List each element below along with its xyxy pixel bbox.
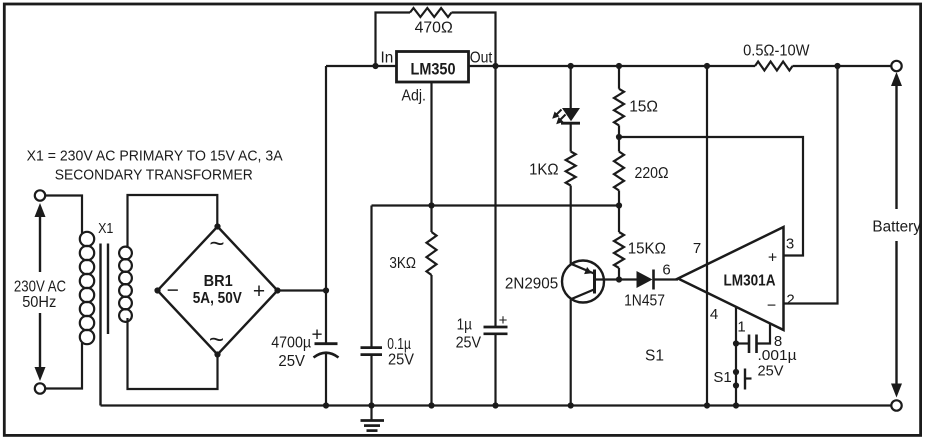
wire Adj node horizontal — [372, 204, 620, 206]
svg-text:25V: 25V — [456, 335, 482, 352]
svg-text:4700µ: 4700µ — [271, 335, 311, 352]
LED emission arrows — [556, 110, 562, 116]
wire Out riser to 1u — [494, 66, 496, 327]
svg-text:S1: S1 — [645, 348, 664, 365]
wire 4700u to ground rail — [325, 354, 327, 406]
svg-text:LM350: LM350 — [411, 61, 456, 79]
wire 15R to 220R — [618, 125, 620, 151]
node 3K ground — [428, 402, 434, 408]
wire base to diode — [596, 278, 637, 280]
svg-text:0.1µ: 0.1µ — [387, 336, 411, 353]
resistor 15K — [614, 232, 624, 268]
resistor 15R — [614, 89, 624, 126]
svg-text:6: 6 — [662, 262, 670, 279]
node 1u ground — [492, 402, 498, 408]
node 4700u ground — [323, 402, 329, 408]
resistor 1K — [566, 152, 576, 186]
svg-text:~: ~ — [209, 228, 224, 258]
svg-text:230V AC: 230V AC — [14, 279, 66, 296]
resistor 3K wires — [430, 206, 432, 233]
svg-text:Adj.: Adj. — [402, 88, 427, 105]
node divider tap (to op-amp +) — [616, 134, 622, 140]
bridge rectifier BR1 diamond — [158, 227, 278, 355]
wire pin1 node down to switch — [735, 344, 737, 406]
capacitor 4700u top plate — [315, 342, 338, 345]
op-amp U2 LM301A — [678, 227, 784, 330]
svg-text:5A, 50V: 5A, 50V — [193, 290, 243, 307]
capacitor comp .001u plates — [748, 335, 751, 354]
AC source arrow down — [39, 313, 41, 368]
node pin7 branch — [704, 63, 710, 69]
wire secondary bottom to bridge AC bottom — [128, 318, 218, 389]
svg-text:+: + — [768, 250, 777, 267]
capacitor 0.1u top plate — [361, 346, 383, 349]
wire diode to op-amp pin 6 — [654, 278, 679, 280]
diode D2 1N457 — [637, 271, 653, 288]
wire pin2 to battery rail — [784, 66, 838, 304]
svg-text:X1 = 230V AC PRIMARY TO 15V AC: X1 = 230V AC PRIMARY TO 15V AC, 3A — [27, 148, 283, 165]
svg-text:SECONDARY TRANSFORMER: SECONDARY TRANSFORMER — [55, 166, 253, 183]
node 15R branch — [616, 63, 622, 69]
capacitor 1u bottom plate — [484, 332, 508, 335]
switch S1 — [733, 369, 739, 375]
svg-text:In: In — [381, 50, 394, 67]
resistor 470R — [410, 8, 452, 17]
transformer X1 secondary winding — [119, 247, 132, 260]
transformer core line left (to ground rail) — [99, 244, 101, 406]
svg-text:4: 4 — [710, 306, 718, 323]
svg-text:470Ω: 470Ω — [415, 20, 453, 37]
svg-text:−: − — [167, 279, 179, 302]
transformer core line right — [107, 244, 109, 335]
wire In — [326, 65, 397, 67]
svg-text:LM301A: LM301A — [724, 273, 776, 290]
transformer X1 primary winding — [80, 232, 94, 246]
capacitor comp .001u wires — [736, 342, 749, 344]
wire ground rail — [101, 404, 892, 406]
wire 220R to Adj node — [618, 191, 620, 233]
svg-text:3: 3 — [786, 236, 794, 253]
svg-text:1: 1 — [737, 319, 745, 336]
svg-text:2: 2 — [786, 292, 794, 309]
node bridge AC top — [214, 223, 220, 229]
svg-text:25V: 25V — [758, 363, 784, 380]
svg-text:BR1: BR1 — [204, 273, 233, 290]
svg-text:2N2905: 2N2905 — [505, 276, 558, 293]
svg-text:X1: X1 — [98, 220, 113, 237]
wire Adj to 0.1u riser — [370, 206, 372, 348]
battery arrow down — [895, 241, 897, 384]
wire 1u to ground rail — [494, 334, 496, 406]
resistor 470R loop wires — [376, 13, 411, 67]
svg-text:Battery: Battery — [872, 219, 921, 236]
svg-text:1N457: 1N457 — [624, 293, 665, 310]
node In / 470R junction — [372, 63, 378, 69]
node base / 15K junction — [616, 276, 622, 282]
svg-text:~: ~ — [209, 324, 224, 354]
svg-text:15KΩ: 15KΩ — [628, 241, 666, 258]
svg-text:−: − — [767, 298, 776, 315]
node bridge AC bottom — [214, 351, 220, 357]
node bridge plus / rail junction — [323, 287, 329, 293]
AC source arrow up — [39, 216, 41, 272]
node LED branch — [568, 63, 574, 69]
svg-text:25V: 25V — [388, 352, 415, 369]
node switch ground — [733, 402, 739, 408]
node bridge minus — [154, 287, 160, 293]
wire divider tap to pin3 — [619, 137, 803, 256]
wire secondary top to bridge AC top — [128, 195, 218, 248]
wire input rail (LM350 In riser) — [325, 66, 327, 344]
node pin4 ground — [704, 402, 710, 408]
svg-text:50Hz: 50Hz — [22, 294, 56, 311]
capacitor 0.1u bottom plate — [361, 353, 383, 356]
wire rail to LED — [570, 66, 572, 109]
svg-text:0.5Ω-10W: 0.5Ω-10W — [743, 43, 810, 60]
node pin2 branch — [834, 63, 840, 69]
node bridge plus — [274, 287, 280, 293]
node Adj junction — [428, 202, 434, 208]
wire LED to 1K — [570, 123, 572, 151]
pin 1 stub — [735, 307, 737, 344]
wire primary to AC bottom — [45, 343, 82, 389]
node Out / 470R junction — [492, 63, 498, 69]
svg-text:S1: S1 — [713, 369, 731, 386]
wire pin7/pin4 vertical — [706, 66, 708, 406]
wire 0.1u to ground rail — [370, 355, 372, 406]
battery terminal top — [891, 61, 901, 71]
resistor 220R — [614, 152, 624, 191]
node pin1 / comp cap junction — [733, 340, 739, 346]
svg-text:15Ω: 15Ω — [629, 99, 658, 116]
wire 15K to base node — [618, 268, 620, 280]
wire collector to ground rail — [570, 299, 572, 405]
wire bridge plus to filter node — [278, 289, 327, 291]
LED D1 — [562, 108, 580, 121]
wire AC top to primary — [45, 196, 82, 235]
resistor 3K — [427, 232, 437, 275]
battery terminal bottom — [891, 400, 901, 410]
node 0.1u ground — [368, 402, 374, 408]
svg-text:25V: 25V — [278, 353, 305, 370]
AC input terminal bottom — [35, 383, 45, 393]
capacitor 4700u bottom plate (curved) — [314, 353, 339, 358]
node 220R / 15K / Adj junction — [616, 202, 622, 208]
svg-text:220Ω: 220Ω — [635, 165, 669, 182]
AC input terminal top — [35, 190, 45, 200]
regulator U1 LM350 box — [397, 52, 469, 83]
svg-text:7: 7 — [693, 240, 701, 257]
node collector ground — [568, 402, 574, 408]
wire rail to 15R — [618, 66, 620, 89]
resistor 0.5R-10W — [755, 62, 793, 71]
wire 1K to transistor emitter — [570, 186, 572, 264]
svg-text:+: + — [253, 280, 265, 303]
ground symbol — [370, 406, 372, 421]
battery arrow up — [891, 72, 902, 86]
svg-text:3KΩ: 3KΩ — [389, 255, 416, 272]
svg-text:Out: Out — [470, 50, 493, 67]
wire output rail — [496, 65, 756, 67]
svg-text:.001µ: .001µ — [758, 347, 797, 364]
wire Adj pin down — [430, 82, 432, 206]
svg-text:1KΩ: 1KΩ — [529, 162, 559, 179]
capacitor 1u top plate — [484, 326, 508, 329]
svg-text:1µ: 1µ — [457, 317, 472, 334]
transistor Q1 2N2905 — [562, 261, 604, 303]
wire Out — [469, 65, 496, 67]
